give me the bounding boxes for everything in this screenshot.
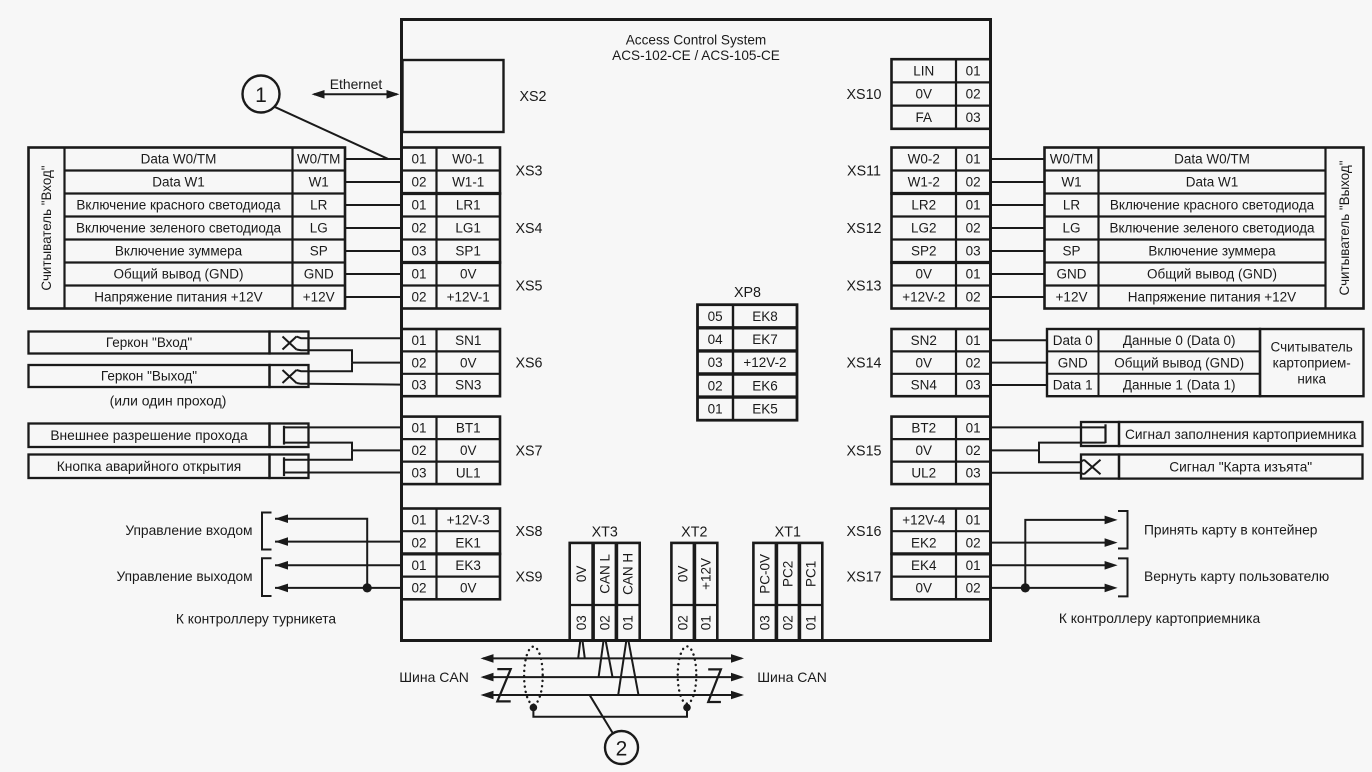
- wire SB3 to 0V bus right: [1039, 443, 1106, 451]
- caption to turnstile controller: [176, 612, 337, 627]
- svg-text:BT1: BT1: [456, 421, 481, 436]
- connector XP8: [698, 285, 798, 420]
- svg-text:SP: SP: [1062, 244, 1080, 259]
- svg-text:CAN H: CAN H: [621, 553, 636, 595]
- callout 2 pointer line: [590, 695, 613, 733]
- connector XS4: [402, 194, 543, 263]
- svg-text:XS2: XS2: [519, 89, 546, 105]
- svg-text:01: 01: [411, 198, 426, 213]
- svg-text:02: 02: [411, 221, 426, 236]
- svg-text:Общий вывод (GND): Общий вывод (GND): [1147, 267, 1277, 282]
- wire 0V bus to XS6-02: [352, 362, 402, 364]
- connector XS7: [402, 417, 543, 485]
- svg-text:+12V-2: +12V-2: [902, 290, 945, 305]
- svg-text:Включение зуммера: Включение зуммера: [1148, 244, 1276, 259]
- svg-text:BT2: BT2: [911, 421, 936, 436]
- svg-text:Напряжение питания +12V: Напряжение питания +12V: [1128, 290, 1296, 305]
- svg-text:03: 03: [758, 615, 773, 630]
- svg-text:XS6: XS6: [515, 356, 542, 372]
- wire SQ2 to XS6-03 SN3: [309, 383, 402, 386]
- svg-text:W1-1: W1-1: [452, 175, 484, 190]
- svg-text:W1: W1: [309, 175, 329, 190]
- shield interconnect wire: [533, 708, 687, 717]
- svg-text:EK3: EK3: [455, 558, 481, 573]
- svg-text:01: 01: [966, 513, 981, 528]
- svg-text:Общий вывод (GND): Общий вывод (GND): [1114, 355, 1244, 370]
- wire SQ1 to 0V bus: [309, 350, 353, 362]
- svg-text:Считыватель: Считыватель: [1271, 339, 1353, 354]
- svg-text:01: 01: [621, 615, 636, 630]
- svg-text:XS12: XS12: [847, 221, 882, 237]
- svg-text:Data 1: Data 1: [1053, 378, 1093, 393]
- svg-text:EK6: EK6: [752, 378, 778, 393]
- svg-text:Включение зуммера: Включение зуммера: [115, 244, 243, 259]
- svg-text:+12V-4: +12V-4: [902, 513, 946, 528]
- wire SB1 to 0V bus: [284, 443, 352, 451]
- connector XS2 (Ethernet socket): [403, 60, 547, 132]
- svg-text:W0/TM: W0/TM: [297, 152, 341, 167]
- svg-text:Ethernet: Ethernet: [330, 76, 383, 92]
- wire SN4 to card reader: [991, 384, 1048, 386]
- connector XS8: [402, 509, 543, 554]
- svg-text:Data W1: Data W1: [152, 175, 205, 190]
- connector XS14: [847, 329, 991, 396]
- svg-text:03: 03: [708, 355, 723, 370]
- connector XS5: [402, 263, 543, 309]
- svg-text:К контроллеру картоприемника: К контроллеру картоприемника: [1059, 611, 1261, 626]
- wire 0V bus to XS15-02: [991, 449, 1040, 451]
- junction dot on 0V wire: [363, 583, 372, 592]
- svg-text:01: 01: [411, 267, 426, 282]
- wire/arrow XS17-02 0V: [991, 584, 1118, 593]
- svg-text:LG1: LG1: [455, 221, 481, 236]
- wire W0/TM to controller: [345, 158, 402, 160]
- signal container-full label box: [1119, 422, 1363, 446]
- bracket accept-card pair: [1118, 511, 1128, 549]
- svg-text:02: 02: [966, 87, 981, 102]
- controller ACS-102-CE main box outline: [402, 20, 991, 641]
- controller title text: [612, 33, 780, 64]
- wire SP to controller: [345, 250, 402, 252]
- button symbol SB2: [270, 455, 309, 479]
- svg-text:1: 1: [255, 84, 267, 107]
- button symbol SB3 (container full signal): [1081, 422, 1119, 446]
- wire W1 to controller: [345, 181, 402, 183]
- wire SQ1 to XS6-01 SN1: [309, 337, 402, 339]
- svg-text:XS11: XS11: [847, 164, 881, 180]
- svg-text:SP1: SP1: [455, 244, 481, 259]
- svg-text:01: 01: [411, 333, 426, 348]
- svg-text:XS10: XS10: [847, 87, 882, 103]
- svg-text:Data W0/TM: Data W0/TM: [1174, 152, 1250, 167]
- svg-text:CAN L: CAN L: [598, 554, 613, 594]
- svg-text:W0-2: W0-2: [908, 152, 940, 167]
- svg-text:02: 02: [966, 535, 981, 550]
- connector XS3: [402, 148, 543, 194]
- svg-text:0V: 0V: [460, 355, 477, 370]
- svg-text:Data W0/TM: Data W0/TM: [141, 152, 217, 167]
- svg-text:Принять карту в контейнер: Принять карту в контейнер: [1144, 523, 1318, 538]
- CAN bus line 3 (CAN H): [481, 691, 745, 700]
- svg-text:01: 01: [966, 333, 981, 348]
- svg-text:01: 01: [411, 513, 426, 528]
- wire/arrow XS17-01 EK4: [991, 561, 1118, 570]
- terminal block XT2 (power): [671, 525, 717, 641]
- XT3 pin 01 drop legs: [618, 642, 638, 696]
- svg-text:XS13: XS13: [847, 279, 882, 295]
- junction dot on 0V wire right: [1021, 583, 1030, 592]
- bracket for entrance control pair: [262, 513, 272, 550]
- svg-text:GND: GND: [1058, 355, 1088, 370]
- svg-text:03: 03: [966, 244, 981, 259]
- external pass permission label box: [29, 424, 270, 448]
- svg-text:LR1: LR1: [456, 198, 481, 213]
- svg-text:XS4: XS4: [515, 221, 542, 237]
- wire/arrow +12V-3 control (to bus): [275, 514, 367, 588]
- svg-text:EK7: EK7: [752, 332, 778, 347]
- emergency open button label box: [29, 455, 270, 479]
- reed switch "Gerkon Vyhod" label box: [29, 365, 270, 387]
- wire +12V to controller: [345, 296, 402, 298]
- svg-text:XT3: XT3: [592, 525, 618, 541]
- svg-text:0V: 0V: [916, 355, 933, 370]
- svg-text:0V: 0V: [916, 87, 933, 102]
- connector XS10: [847, 59, 991, 129]
- svg-text:2: 2: [616, 738, 628, 761]
- label entrance control: [125, 523, 252, 538]
- cable shield ellipse left (dotted): [524, 647, 543, 705]
- terminal block XT3 (CAN): [570, 525, 640, 641]
- svg-text:02: 02: [676, 615, 691, 630]
- svg-text:01: 01: [966, 64, 981, 79]
- svg-text:04: 04: [708, 332, 724, 347]
- svg-text:XS9: XS9: [515, 570, 542, 586]
- svg-text:03: 03: [966, 110, 981, 125]
- wire/arrow XS9-01 EK3: [275, 561, 402, 570]
- svg-text:01: 01: [804, 615, 819, 630]
- label accept card to container: [1144, 523, 1318, 538]
- svg-text:W0-1: W0-1: [452, 152, 484, 167]
- connector XS9: [402, 554, 543, 599]
- wire 0V to card reader: [991, 362, 1048, 364]
- svg-text:Данные 1 (Data 1): Данные 1 (Data 1): [1123, 378, 1236, 393]
- signal card-removed label box: [1119, 455, 1363, 479]
- svg-text:01: 01: [699, 615, 714, 630]
- svg-text:01: 01: [966, 198, 981, 213]
- svg-text:UL2: UL2: [911, 466, 936, 481]
- svg-text:SN4: SN4: [911, 378, 938, 393]
- reed switch symbol SQ1 (X contact): [270, 332, 309, 354]
- wire LR2 to output reader: [991, 204, 1045, 206]
- svg-text:XS17: XS17: [847, 570, 882, 586]
- svg-text:W1: W1: [1061, 175, 1081, 190]
- svg-text:01: 01: [966, 267, 981, 282]
- svg-text:0V: 0V: [574, 566, 589, 583]
- XT3 pin 02 drop legs: [599, 642, 613, 678]
- wire LR to controller: [345, 204, 402, 206]
- shield junction dot left: [530, 704, 538, 712]
- svg-text:FA: FA: [916, 110, 933, 125]
- wire 0V to output reader: [991, 273, 1045, 275]
- svg-text:PC1: PC1: [804, 561, 819, 587]
- cable shield ellipse right (dotted): [678, 646, 697, 703]
- svg-text:03: 03: [966, 466, 981, 481]
- svg-text:02: 02: [598, 615, 613, 630]
- svg-text:0V: 0V: [460, 581, 477, 596]
- svg-text:03: 03: [574, 615, 589, 630]
- svg-text:ника: ника: [1297, 371, 1326, 386]
- connector XS11: [847, 148, 990, 194]
- svg-text:02: 02: [411, 443, 426, 458]
- svg-text:GND: GND: [1057, 267, 1087, 282]
- svg-text:W1-2: W1-2: [908, 175, 940, 190]
- svg-text:Data 0: Data 0: [1053, 333, 1093, 348]
- svg-text:01: 01: [411, 421, 426, 436]
- reed switch symbol SQ2 (X contact): [270, 365, 309, 387]
- svg-text:05: 05: [708, 309, 723, 324]
- svg-text:SP2: SP2: [911, 244, 937, 259]
- svg-text:03: 03: [411, 466, 426, 481]
- svg-text:W0/TM: W0/TM: [1050, 152, 1094, 167]
- wire/arrow XS8-02 EK1: [275, 537, 402, 546]
- wire 0V bus to XS7-02: [352, 449, 402, 451]
- svg-text:01: 01: [411, 558, 426, 573]
- wire XS15-01 BT2 to button symbol: [991, 426, 1106, 428]
- svg-text:02: 02: [411, 581, 426, 596]
- reed contact symbol SQ3 (card removed signal): [991, 450, 1120, 478]
- svg-text:Управление входом: Управление входом: [125, 523, 252, 538]
- connector XS13: [847, 263, 991, 309]
- svg-text:XS15: XS15: [847, 443, 882, 459]
- svg-text:EK4: EK4: [911, 558, 937, 573]
- wire SQ2 to 0V bus: [309, 363, 353, 372]
- svg-text:03: 03: [966, 378, 981, 393]
- svg-text:GND: GND: [304, 267, 334, 282]
- wire GND to controller: [345, 273, 402, 275]
- svg-text:XT2: XT2: [681, 525, 707, 541]
- svg-text:0V: 0V: [676, 566, 691, 583]
- svg-text:+12V: +12V: [303, 290, 335, 305]
- svg-text:01: 01: [411, 152, 426, 167]
- svg-text:XP8: XP8: [734, 285, 761, 301]
- svg-text:PC2: PC2: [781, 561, 796, 587]
- shield junction dot right: [683, 704, 691, 712]
- svg-text:02: 02: [966, 355, 981, 370]
- reader "Vhod" table (left input reader): [29, 148, 346, 309]
- wire LG2 to output reader: [991, 227, 1045, 229]
- svg-text:LG: LG: [1062, 221, 1080, 236]
- svg-text:02: 02: [966, 290, 981, 305]
- svg-text:01: 01: [708, 401, 723, 416]
- svg-text:0V: 0V: [916, 267, 933, 282]
- svg-text:+12V: +12V: [1056, 290, 1088, 305]
- svg-text:Access Control System: Access Control System: [626, 33, 767, 48]
- cable break mark left (Z): [497, 669, 510, 701]
- CAN bus line 2 (CAN L): [481, 673, 745, 682]
- svg-text:Вернуть карту пользователю: Вернуть карту пользователю: [1144, 569, 1329, 584]
- svg-text:EK1: EK1: [455, 535, 481, 550]
- cable break mark right (Z): [708, 669, 721, 702]
- svg-text:EK5: EK5: [752, 401, 778, 416]
- wire/arrow XS9-02 0V: [275, 584, 402, 593]
- svg-text:SP: SP: [310, 244, 328, 259]
- wire SN2 to card reader: [991, 339, 1048, 341]
- wire SB2 to 0V bus: [284, 450, 352, 459]
- svg-text:XS5: XS5: [515, 279, 542, 295]
- connector XS12: [847, 194, 991, 263]
- Ethernet link double arrow: [312, 76, 400, 99]
- callout 1 pointer line: [274, 107, 388, 159]
- svg-text:+12V-1: +12V-1: [447, 290, 490, 305]
- button symbol SB1: [270, 424, 309, 448]
- caption (or single passage): [110, 392, 227, 408]
- svg-text:XS14: XS14: [847, 356, 882, 372]
- svg-text:XS8: XS8: [515, 524, 542, 540]
- svg-text:01: 01: [966, 421, 981, 436]
- bracket return-card pair: [1118, 558, 1128, 596]
- label exit control: [116, 569, 252, 584]
- svg-text:LR2: LR2: [911, 198, 936, 213]
- svg-text:02: 02: [411, 290, 426, 305]
- svg-text:03: 03: [411, 244, 426, 259]
- connector XS16: [847, 509, 991, 554]
- wire SB1 to XS7-01 BT1: [284, 426, 402, 428]
- connector group boundary lines: [402, 194, 991, 554]
- svg-text:Данные 0 (Data 0): Данные 0 (Data 0): [1123, 333, 1236, 348]
- bracket for exit control pair: [262, 558, 272, 596]
- svg-text:0V: 0V: [460, 267, 477, 282]
- svg-text:Шина CAN: Шина CAN: [399, 669, 469, 685]
- svg-text:02: 02: [966, 581, 981, 596]
- caption to card reader controller: [1059, 611, 1261, 626]
- svg-text:(или один проход): (или один проход): [110, 392, 227, 408]
- svg-text:02: 02: [411, 355, 426, 370]
- svg-text:Управление выходом: Управление выходом: [116, 569, 252, 584]
- svg-text:LR: LR: [310, 198, 328, 213]
- svg-text:01: 01: [966, 152, 981, 167]
- svg-text:Шина CAN: Шина CAN: [757, 669, 827, 685]
- svg-text:EK2: EK2: [911, 535, 937, 550]
- svg-text:02: 02: [966, 175, 981, 190]
- svg-text:02: 02: [708, 378, 723, 393]
- svg-text:XS16: XS16: [847, 524, 882, 540]
- svg-text:Включение зеленого светодиода: Включение зеленого светодиода: [76, 221, 281, 236]
- svg-text:+12V-2: +12V-2: [743, 355, 786, 370]
- svg-text:+12V: +12V: [699, 558, 714, 590]
- svg-text:SN2: SN2: [911, 333, 937, 348]
- callout 1 (circle marker): [243, 76, 280, 113]
- wire +12V-2 to output reader: [991, 296, 1045, 298]
- svg-text:01: 01: [966, 558, 981, 573]
- svg-text:SN1: SN1: [455, 333, 481, 348]
- label CAN bus left: [399, 669, 469, 685]
- svg-text:Считыватель "Выход": Считыватель "Выход": [1337, 160, 1352, 295]
- reed switch "Gerkon Vhod" label box: [29, 332, 270, 354]
- wire W0-2 to output reader: [991, 158, 1045, 160]
- svg-text:0V: 0V: [916, 443, 933, 458]
- svg-text:PC-0V: PC-0V: [758, 554, 773, 594]
- svg-text:Напряжение питания +12V: Напряжение питания +12V: [94, 290, 262, 305]
- svg-text:картоприем-: картоприем-: [1273, 355, 1351, 370]
- connector XS6: [402, 329, 543, 396]
- svg-text:Геркон "Выход": Геркон "Выход": [101, 369, 197, 384]
- svg-text:UL1: UL1: [456, 466, 481, 481]
- XT3 pin 03 drop legs: [578, 642, 585, 659]
- svg-text:03: 03: [411, 378, 426, 393]
- svg-text:Включение красного светодиода: Включение красного светодиода: [76, 198, 281, 213]
- svg-text:ACS-102-CE / ACS-105-CE: ACS-102-CE / ACS-105-CE: [612, 48, 780, 63]
- svg-text:Кнопка аварийного открытия: Кнопка аварийного открытия: [57, 459, 242, 474]
- svg-text:Считыватель "Вход": Считыватель "Вход": [39, 165, 54, 290]
- svg-text:LG: LG: [310, 221, 328, 236]
- svg-text:02: 02: [411, 535, 426, 550]
- wire SB2 to XS7-03 UL1: [284, 472, 402, 474]
- svg-text:Сигнал заполнения картоприемни: Сигнал заполнения картоприемника: [1125, 427, 1357, 442]
- svg-text:Сигнал "Карта изъята": Сигнал "Карта изъята": [1169, 459, 1312, 474]
- svg-text:К контроллеру турникета: К контроллеру турникета: [176, 612, 337, 627]
- wire/arrow XS16-02 EK2: [991, 538, 1118, 547]
- svg-text:SN3: SN3: [455, 378, 481, 393]
- svg-text:Включение зеленого светодиода: Включение зеленого светодиода: [1110, 221, 1315, 236]
- connector XS17: [847, 554, 991, 599]
- svg-text:LIN: LIN: [913, 64, 934, 79]
- svg-text:Геркон "Вход": Геркон "Вход": [106, 335, 193, 350]
- wire W1-2 to output reader: [991, 181, 1045, 183]
- label return card to user: [1144, 569, 1329, 584]
- svg-text:LR: LR: [1063, 198, 1081, 213]
- svg-text:02: 02: [411, 175, 426, 190]
- label CAN bus right: [757, 669, 827, 685]
- svg-text:02: 02: [966, 221, 981, 236]
- card capture reader table: [1047, 329, 1364, 396]
- wire SP2 to output reader: [991, 250, 1045, 252]
- svg-text:Включение красного светодиода: Включение красного светодиода: [1110, 198, 1315, 213]
- svg-text:Data W1: Data W1: [1186, 175, 1239, 190]
- svg-text:02: 02: [966, 443, 981, 458]
- svg-text:Общий вывод (GND): Общий вывод (GND): [114, 267, 244, 282]
- svg-text:EK8: EK8: [752, 309, 778, 324]
- terminal block XT1 (PC): [753, 525, 822, 641]
- wire/arrow +12V-4 (from bus): [1025, 516, 1117, 588]
- svg-text:XT1: XT1: [775, 525, 801, 541]
- svg-text:02: 02: [781, 615, 796, 630]
- callout 2 (circle marker): [605, 731, 638, 764]
- svg-text:+12V-3: +12V-3: [447, 513, 490, 528]
- wire LG to controller: [345, 227, 402, 229]
- svg-text:0V: 0V: [460, 443, 477, 458]
- svg-text:LG2: LG2: [911, 221, 937, 236]
- reader "Vyhod" table (right output reader): [1045, 148, 1364, 309]
- CAN bus line 1 (0V): [481, 654, 745, 663]
- svg-text:XS3: XS3: [515, 164, 542, 180]
- svg-text:Внешнее разрешение прохода: Внешнее разрешение прохода: [50, 428, 248, 443]
- svg-text:XS7: XS7: [515, 443, 542, 459]
- connector XS15: [847, 417, 991, 485]
- svg-text:0V: 0V: [916, 581, 933, 596]
